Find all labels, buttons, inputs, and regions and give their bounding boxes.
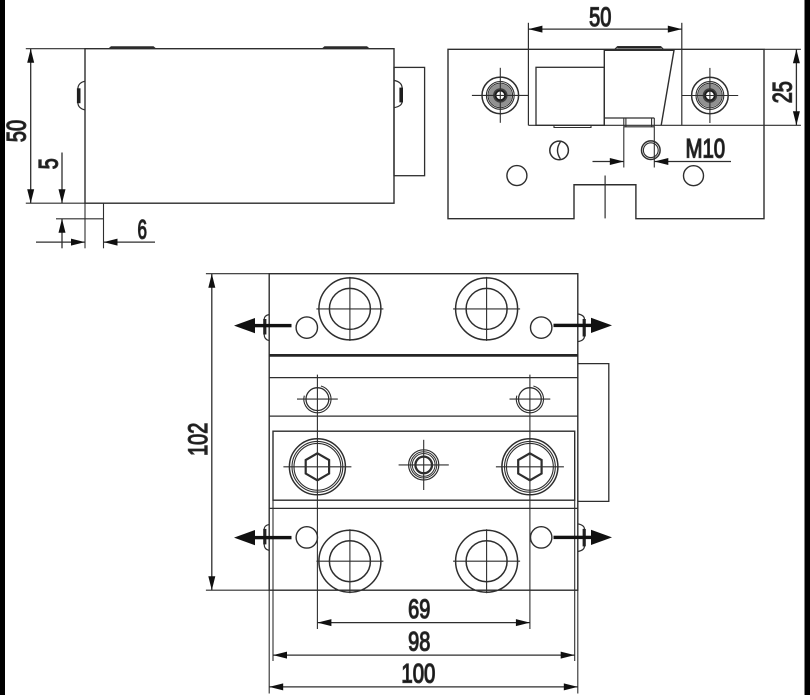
force arrow bottom-left [234,530,292,545]
svg-text:25: 25 [768,81,798,103]
counterbore hole bottom-right [453,529,520,593]
dimension 25 ext top [764,48,801,50]
right side tab [578,364,609,502]
notch centerline [604,176,606,219]
dimension 102 ext top [206,273,269,275]
M10 callout left arrow [593,161,624,163]
dimension 98 arrows [273,652,575,659]
dimension 50 (left) line [30,49,32,204]
small hole bottom-left [296,527,317,548]
hex socket screw right [496,439,564,495]
98 ext line right (block edge extended) [574,500,576,661]
tapped hole right (top view band) [510,386,551,413]
dimension 6 left line+arrow [36,241,85,243]
counterbore hole top-right [453,277,520,341]
dimension 5 upper line+arrow [61,153,63,204]
centerline right column / 69 ext [529,375,531,629]
top rail strip 2 [322,46,371,49]
dimension 100 arrows [269,683,578,690]
left black border bar [0,0,5,695]
edge pin bottom-right [578,524,585,552]
dimension 50 (top) line [528,28,681,30]
wedge top cap [614,47,665,51]
dimension 100 ext right [577,590,579,693]
small hole top-left [296,317,317,338]
centerline left column / 69 ext [316,375,318,629]
small hole bottom-right [531,527,552,548]
groove bottom line / 25 ext [528,124,801,126]
groove right edge / dim ext [681,23,683,126]
plain hole right (front view) [684,166,704,186]
bottom tab right edge / ext line [103,203,105,248]
right black border bar [805,0,810,695]
movable wedge block [604,50,674,125]
bottom tab bottom edge / ext line [56,218,104,220]
center set screw [399,440,449,490]
left side pin [78,81,85,110]
dimension 69 line [317,622,530,624]
dimension 102 ext bottom [206,589,269,591]
band line 2 [269,377,578,379]
main body side view [85,49,394,204]
dimension 100 ext left [268,590,270,693]
M10 callout right arrow [654,161,731,163]
dimension 6 right line+arrow [104,241,156,243]
force arrow top-right [554,318,613,333]
tapped hole left (front view) [550,141,569,160]
M10 ext lines [623,127,625,168]
groove left edge / dim ext [527,23,529,126]
dimension 50 (left) arrows [27,49,34,204]
plain hole left (front view) [507,166,527,186]
top rail strip 1 [108,46,157,49]
middle rail block [273,431,575,500]
dimension 69 arrows [317,619,530,626]
svg-text:102: 102 [183,423,213,456]
band line 4 [269,507,578,509]
band line 3 [269,415,578,417]
dimension 98 line [273,654,575,656]
counterbore hole bottom-left [316,529,383,593]
dimension 5 lower line+arrow [61,219,63,249]
svg-text:50: 50 [589,2,611,32]
dimension 50 (top) arrows [528,26,681,33]
force arrow top-left [234,318,292,333]
svg-text:M10: M10 [685,133,725,163]
dimension 25 line [795,49,797,125]
right boss (grip bolt) [682,68,738,123]
svg-text:6: 6 [138,215,148,245]
small hole top-right [531,317,552,338]
fixed jaw lip [554,125,591,127]
tapped hole right (front view) [642,141,661,160]
top view outline [269,274,578,591]
dimension 102 arrows [208,274,215,591]
edge pin bottom-left [264,524,269,550]
thick band line [269,354,578,357]
svg-text:98: 98 [408,627,430,657]
hex socket screw left [283,439,351,495]
98 ext line left (block edge extended) [272,500,274,661]
M10 screw foot [624,118,655,127]
svg-text:100: 100 [401,658,435,688]
svg-text:50: 50 [2,120,32,142]
side plate (right of main body) [394,67,425,175]
edge pin top-left [264,315,269,341]
dimension 102 line [211,274,213,591]
right side pin [394,80,402,107]
counterbore hole top-left [316,277,383,341]
edge pin top-right [578,314,585,342]
dimension 25 arrows [793,49,800,125]
bottom tab left edge / ext line [84,203,86,248]
fixed jaw block [536,67,604,125]
left boss (grip bolt) [472,68,528,123]
wedge bottom edge [604,117,654,119]
dimension 50 (left) ext bottom [26,202,85,204]
svg-text:69: 69 [408,594,430,624]
tapped hole left (top view band) [297,386,338,413]
dimension 50 (left) ext top [26,48,85,50]
dimension 100 line [269,686,578,688]
base plate outline with bottom notch [448,49,764,218]
svg-text:5: 5 [33,158,63,169]
force arrow bottom-right [554,530,613,545]
